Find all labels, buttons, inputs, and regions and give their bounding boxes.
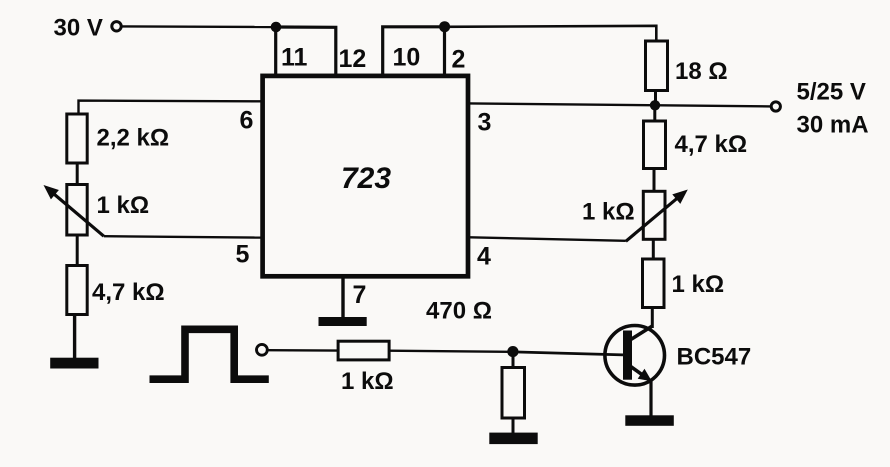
wire output node to R4 — [653, 106, 656, 121]
wire pin 3 to output terminal — [470, 103, 771, 106]
op-amp U1 IC 723 — [263, 76, 468, 276]
wire input terminal to R6 — [268, 349, 338, 352]
svg-text:1 kΩ: 1 kΩ — [582, 199, 635, 226]
svg-text:4: 4 — [477, 243, 491, 271]
svg-text:10: 10 — [393, 44, 421, 72]
svg-text:12: 12 — [339, 45, 367, 73]
svg-text:BC547: BC547 — [677, 344, 752, 371]
wire staple pin10 to pin2 — [383, 27, 445, 75]
svg-text:7: 7 — [353, 281, 367, 309]
wire staple pin11 to pin12 — [276, 27, 336, 75]
svg-text:18 Ω: 18 Ω — [675, 58, 728, 85]
wire pin 7 to ground — [341, 279, 344, 319]
svg-text:4,7 kΩ: 4,7 kΩ — [92, 279, 165, 306]
wire pin 5 to P1 wiper — [104, 236, 262, 237]
svg-text:3: 3 — [478, 109, 492, 137]
ground pin 7 — [319, 317, 367, 326]
svg-text:723: 723 — [341, 162, 391, 195]
wire 30V rail to junction — [122, 25, 276, 28]
wire pin 6 to R1 — [79, 101, 263, 114]
wire base node to R7 — [512, 352, 515, 368]
wire P2 to R5 — [652, 239, 655, 259]
ground emitter — [625, 415, 674, 426]
potentiometer P1 wiper arrow — [51, 192, 104, 237]
potentiometer P1 1k body — [67, 185, 87, 236]
wire R6 to base node — [389, 351, 513, 352]
svg-text:470 Ω: 470 Ω — [426, 298, 492, 325]
potentiometer P2 wiper arrow — [626, 196, 680, 241]
svg-text:1 kΩ: 1 kΩ — [672, 271, 725, 298]
resistor R6 1k horizontal — [338, 341, 389, 360]
resistor R1 2,2k — [67, 114, 87, 163]
wire pin 4 to P2 wiper — [470, 237, 626, 241]
svg-text:11: 11 — [281, 44, 308, 72]
resistor R4 4,7k — [644, 121, 666, 169]
resistor R3 18 ohm — [646, 41, 668, 91]
transistor Q1 BC547 — [605, 326, 665, 386]
terminal 30V input — [112, 22, 121, 31]
wire R7 to ground — [512, 417, 515, 434]
terminal 5/25V output — [771, 102, 780, 111]
junction dot pin2 node — [439, 21, 450, 32]
wire pin 2 lead — [443, 27, 446, 75]
pulse waveform symbol — [150, 329, 269, 379]
wire R1 to P1 — [76, 164, 79, 185]
svg-text:5: 5 — [236, 241, 250, 269]
junction dot base node — [507, 346, 518, 357]
svg-text:5/25 V: 5/25 V — [797, 79, 866, 106]
svg-text:6: 6 — [240, 107, 254, 135]
ground left — [50, 358, 98, 369]
svg-text:2,2 kΩ: 2,2 kΩ — [97, 125, 170, 152]
wire P1 to R2 — [76, 235, 79, 267]
wire R2 to ground — [73, 315, 76, 359]
ground R7 — [489, 433, 537, 445]
wire rail to 18 ohm resistor — [445, 26, 657, 41]
junction dot output node — [650, 100, 660, 110]
junction dot node V+ pin11 — [271, 22, 282, 33]
svg-text:30 V: 30 V — [54, 15, 103, 42]
wire R5 to collector — [651, 308, 654, 329]
wire pin 11 lead — [274, 27, 277, 75]
terminal pulse input — [257, 344, 268, 355]
wire base node to Q1 base — [513, 352, 623, 355]
svg-text:1 kΩ: 1 kΩ — [97, 192, 150, 219]
svg-text:30 mA: 30 mA — [797, 112, 869, 139]
wire R4 to P2 — [653, 168, 656, 191]
resistor R7 470 ohm — [502, 368, 525, 419]
potentiometer P2 1k body — [643, 191, 665, 239]
resistor R5 1k — [643, 259, 665, 308]
resistor R2 4,7k — [67, 266, 87, 315]
svg-text:1 kΩ: 1 kΩ — [341, 368, 394, 395]
svg-text:2: 2 — [452, 46, 466, 74]
wire R3 to output node — [654, 91, 657, 107]
svg-text:4,7 kΩ: 4,7 kΩ — [675, 131, 748, 158]
